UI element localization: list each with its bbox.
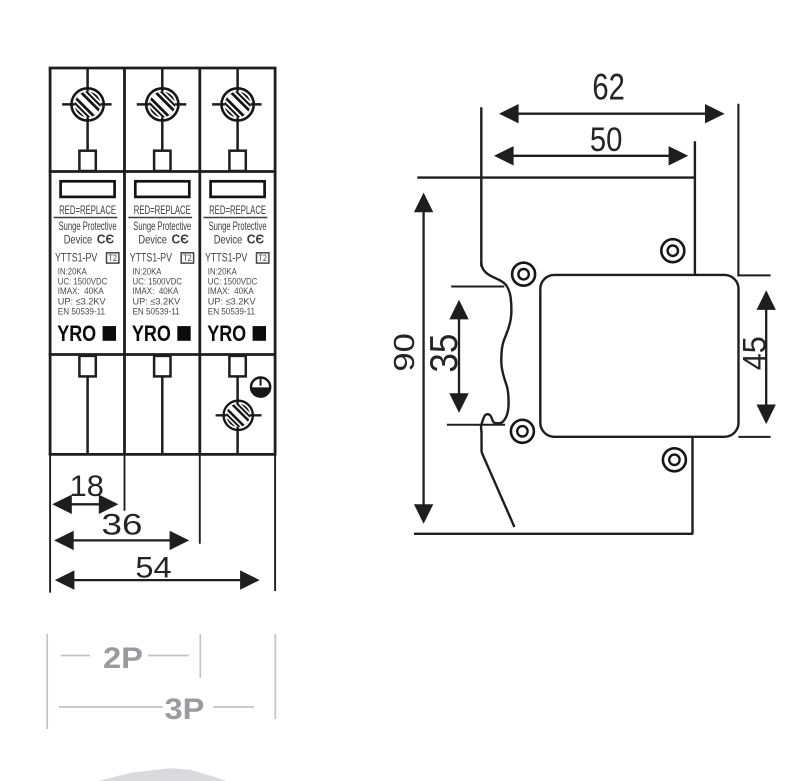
svg-text:IN:20KA: IN:20KA [208, 266, 238, 276]
svg-text:T2: T2 [108, 253, 117, 263]
svg-text:2P: 2P [103, 642, 143, 675]
svg-text:YRO: YRO [207, 321, 246, 346]
svg-text:IMAX: 40KA: IMAX: 40KA [133, 286, 180, 296]
svg-text:IN:20KA: IN:20KA [133, 266, 163, 276]
svg-text:Device: Device [138, 233, 167, 246]
svg-text:90: 90 [389, 333, 421, 372]
svg-text:50: 50 [590, 121, 623, 159]
svg-text:EN 50539-11: EN 50539-11 [133, 307, 180, 317]
svg-text:62: 62 [592, 65, 625, 107]
svg-text:CЄ: CЄ [172, 233, 189, 247]
svg-text:RED=REPLACE: RED=REPLACE [209, 203, 266, 217]
svg-text:18: 18 [70, 470, 104, 503]
svg-text:RED=REPLACE: RED=REPLACE [59, 203, 116, 217]
svg-text:Device: Device [214, 233, 243, 246]
svg-text:UP: ≤3.2KV: UP: ≤3.2KV [208, 297, 257, 307]
svg-text:YRO: YRO [57, 321, 96, 346]
svg-text:CЄ: CЄ [247, 233, 264, 247]
svg-text:Sunge Protective: Sunge Protective [209, 220, 267, 233]
svg-text:EN 50539-11: EN 50539-11 [208, 307, 255, 317]
svg-text:YTTS1-PV: YTTS1-PV [205, 250, 247, 264]
svg-text:IMAX: 40KA: IMAX: 40KA [208, 286, 255, 296]
svg-text:EN 50539-11: EN 50539-11 [58, 307, 105, 317]
svg-text:Device: Device [64, 233, 92, 246]
svg-text:IMAX: 40KA: IMAX: 40KA [58, 286, 105, 296]
svg-text:YTTS1-PV: YTTS1-PV [130, 250, 172, 264]
svg-text:UC: 1500VDC: UC: 1500VDC [208, 276, 258, 286]
svg-text:UC: 1500VDC: UC: 1500VDC [133, 276, 183, 286]
svg-text:Sunge Protective: Sunge Protective [133, 220, 191, 233]
svg-text:RED=REPLACE: RED=REPLACE [134, 203, 191, 217]
svg-text:T2: T2 [258, 253, 267, 263]
svg-text:IN:20KA: IN:20KA [58, 266, 88, 276]
svg-text:YRO: YRO [132, 321, 171, 346]
svg-text:YTTS1-PV: YTTS1-PV [55, 250, 97, 264]
svg-text:3P: 3P [165, 693, 205, 726]
svg-text:UP: ≤3.2KV: UP: ≤3.2KV [133, 297, 182, 307]
svg-text:UC: 1500VDC: UC: 1500VDC [58, 276, 108, 286]
svg-text:T2: T2 [183, 253, 192, 263]
svg-text:CЄ: CЄ [97, 233, 114, 247]
svg-text:UP: ≤3.2KV: UP: ≤3.2KV [58, 297, 107, 307]
svg-text:Sunge Protective: Sunge Protective [59, 220, 117, 233]
svg-text:36: 36 [102, 509, 143, 542]
